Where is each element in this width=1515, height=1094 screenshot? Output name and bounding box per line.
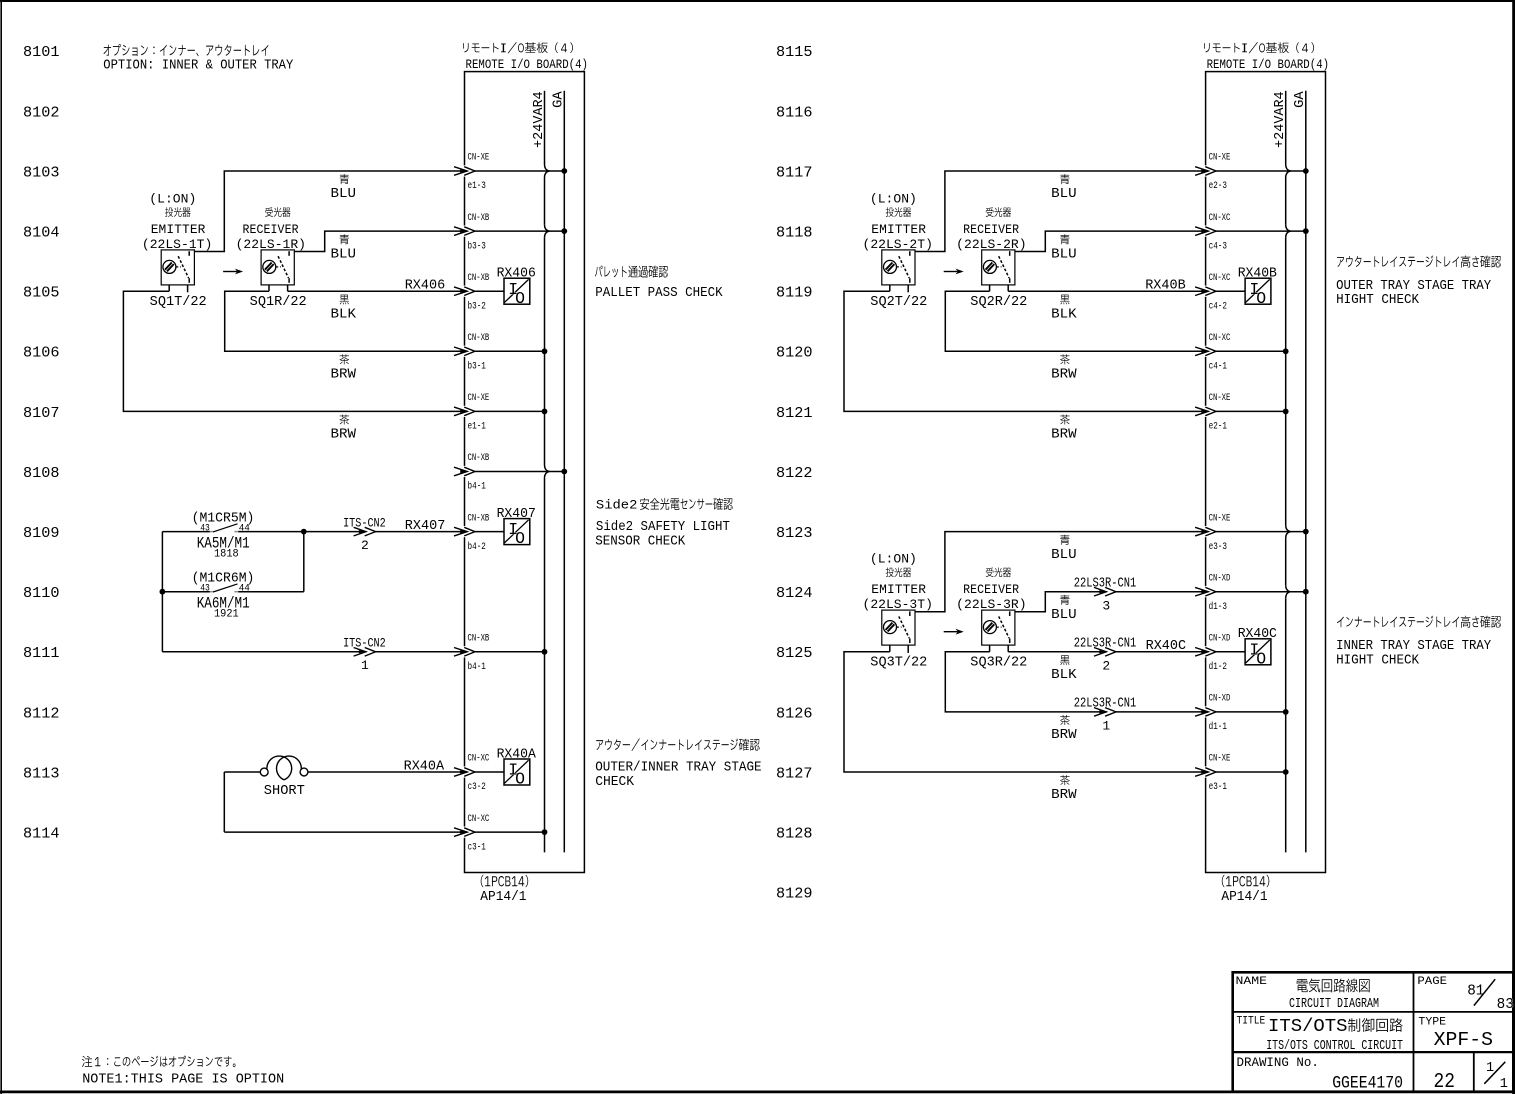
svg-text:HIGHT CHECK: HIGHT CHECK: [1336, 292, 1420, 308]
svg-text:d1-3: d1-3: [1209, 601, 1227, 613]
relay contact KA6M/M1 pins 43-44: [162, 572, 303, 621]
I/O indicator RX40C: [1238, 626, 1277, 668]
svg-text:RX406: RX406: [497, 266, 536, 282]
svg-text:1: 1: [1102, 719, 1110, 734]
wire color label BLU: [331, 174, 357, 202]
svg-text:CN-XE: CN-XE: [1209, 512, 1231, 524]
svg-text:ITS/OTS: ITS/OTS: [1268, 1016, 1348, 1037]
wire node ITS-CN2 rail: [161, 532, 163, 652]
svg-text:1: 1: [1486, 1061, 1494, 1076]
photoelectric sensor emitter SQ1T/22 (22LS-1T): [142, 192, 212, 311]
annotation pallet pass check: [595, 265, 723, 301]
open stub: [907, 285, 909, 292]
wire color label BRW: [1051, 354, 1077, 382]
svg-text:AP14/1: AP14/1: [480, 889, 526, 905]
wire BLU emitter to e1-3: [194, 171, 467, 252]
svg-text:81: 81: [1467, 984, 1484, 1000]
svg-text:8115: 8115: [776, 44, 813, 61]
connector 22LS3R-CN1 pin 2: [1074, 637, 1137, 674]
open stub: [187, 285, 189, 292]
svg-text:AP14/1: AP14/1: [1221, 889, 1267, 905]
svg-text:22LS3R-CN1: 22LS3R-CN1: [1074, 697, 1137, 712]
svg-text:22LS3R-CN1: 22LS3R-CN1: [1074, 637, 1137, 652]
svg-text:CN-XB: CN-XB: [468, 212, 490, 224]
svg-text:RX40A: RX40A: [497, 746, 537, 762]
svg-text:SHORT: SHORT: [264, 784, 305, 799]
svg-text:1818: 1818: [214, 548, 239, 560]
svg-text:NAME: NAME: [1236, 976, 1268, 988]
svg-text:BLK: BLK: [1051, 668, 1077, 683]
svg-text:BLU: BLU: [1051, 548, 1077, 563]
power rail +24VAR4: [532, 91, 549, 853]
svg-text:8128: 8128: [776, 826, 813, 843]
svg-text:(22LS-2R): (22LS-2R): [956, 237, 1026, 252]
svg-text:1: 1: [1500, 1077, 1508, 1092]
wire color label BLU: [1051, 595, 1077, 623]
svg-text:EMITTER: EMITTER: [151, 222, 206, 237]
svg-text:O: O: [1256, 649, 1266, 668]
wire BLU emitter to e3-3: [915, 532, 1208, 612]
svg-text:SQ2R/22: SQ2R/22: [970, 295, 1027, 310]
svg-text:RX407: RX407: [497, 506, 536, 522]
svg-text:c4-1: c4-1: [1209, 361, 1227, 373]
svg-text:(22LS-3T): (22LS-3T): [863, 597, 933, 612]
svg-text:PALLET PASS CHECK: PALLET PASS CHECK: [595, 285, 723, 301]
svg-text:b4-2: b4-2: [468, 541, 486, 553]
I/O indicator RX40A: [497, 746, 537, 788]
svg-text:+24VAR4: +24VAR4: [1273, 91, 1288, 148]
svg-text:8112: 8112: [23, 705, 60, 722]
svg-text:BRW: BRW: [331, 368, 357, 383]
wire color label BRW: [1051, 715, 1077, 743]
annotation outer/inner tray stage check: [595, 739, 761, 791]
board pin CN-XD d1-2: [1195, 633, 1245, 674]
connector 22LS3R-CN1 pin 3: [1074, 576, 1137, 613]
svg-text:1921: 1921: [214, 609, 239, 621]
svg-text:c4-3: c4-3: [1209, 240, 1227, 252]
svg-text:EMITTER: EMITTER: [871, 582, 926, 597]
svg-text:BLU: BLU: [1051, 608, 1077, 623]
svg-text:(22LS-1T): (22LS-1T): [142, 237, 212, 252]
svg-text:GA: GA: [1293, 90, 1308, 107]
svg-text:(22LS-3R): (22LS-3R): [956, 597, 1026, 612]
svg-text:BRW: BRW: [1051, 728, 1077, 743]
svg-text:O: O: [515, 770, 525, 789]
light beam arrow: [944, 269, 964, 275]
svg-text:b3-3: b3-3: [468, 240, 486, 252]
board pin CN-XC c4-3: [1195, 212, 1309, 253]
remote I/O board AP14/1 (left): [463, 42, 588, 905]
svg-text:b4-1: b4-1: [468, 481, 486, 493]
wire BLU receiver: [1015, 231, 1208, 251]
svg-text:CN-XC: CN-XC: [1209, 212, 1231, 224]
svg-text:GA: GA: [552, 90, 567, 107]
remote I/O board AP14/1 (right): [1204, 42, 1329, 905]
svg-text:RECEIVER: RECEIVER: [963, 222, 1019, 237]
short plug SHORT: [224, 756, 467, 799]
svg-text:CN-XC: CN-XC: [468, 813, 490, 825]
wire BRW emitter supply: [844, 285, 1208, 412]
svg-text:8110: 8110: [23, 585, 60, 602]
svg-text:CN-XE: CN-XE: [1209, 152, 1231, 164]
svg-text:22LS3R-CN1: 22LS3R-CN1: [1074, 576, 1137, 591]
svg-text:EMITTER: EMITTER: [871, 222, 926, 237]
svg-text:8125: 8125: [776, 645, 813, 662]
board pin CN-XC c3-1: [454, 813, 547, 854]
svg-text:NOTE1:THIS PAGE IS OPTION: NOTE1:THIS PAGE IS OPTION: [82, 1071, 284, 1087]
svg-text:8106: 8106: [23, 345, 60, 362]
wire BRW receiver supply: [225, 285, 468, 351]
svg-text:b4-1: b4-1: [468, 661, 486, 673]
svg-text:CN-XC: CN-XC: [1209, 272, 1231, 284]
svg-text:TITLE: TITLE: [1237, 1015, 1266, 1027]
board pin CN-XC c4-2: [1195, 272, 1245, 313]
wire color label BLK: [1051, 655, 1077, 683]
svg-text:CN-XE: CN-XE: [468, 392, 490, 404]
board pin CN-XC c3-2: [454, 753, 504, 794]
board pin CN-XB b4-1: [454, 633, 547, 674]
svg-text:+24VAR4: +24VAR4: [532, 91, 547, 148]
svg-text:83: 83: [1497, 997, 1514, 1013]
svg-text:8113: 8113: [23, 765, 60, 782]
svg-text:8102: 8102: [23, 104, 60, 121]
board pin CN-XB b4-1: [454, 452, 567, 493]
svg-text:CN-XC: CN-XC: [1209, 332, 1231, 344]
open stub: [907, 645, 909, 653]
svg-text:RX40C: RX40C: [1146, 639, 1187, 654]
photoelectric sensor receiver SQ2R/22 (22LS-2R): [956, 207, 1027, 310]
wire BRW emitter supply: [844, 645, 1208, 772]
svg-text:2: 2: [1102, 659, 1110, 674]
photoelectric sensor receiver SQ1R/22 (22LS-1R): [236, 207, 307, 310]
board pin CN-XD d1-1: [1195, 693, 1289, 734]
svg-text:8116: 8116: [776, 104, 813, 121]
wire BLU emitter to e2-3: [915, 171, 1208, 252]
svg-text:(L:ON): (L:ON): [149, 192, 196, 207]
svg-text:CN-XE: CN-XE: [468, 152, 490, 164]
wire BLK receiver signal: [1008, 285, 1208, 291]
svg-text:BRW: BRW: [1051, 368, 1077, 383]
svg-text:e3-1: e3-1: [1209, 781, 1227, 793]
svg-text:RX40C: RX40C: [1238, 626, 1277, 642]
wire BRW emitter supply: [123, 285, 467, 412]
svg-text:RECEIVER: RECEIVER: [243, 222, 299, 237]
svg-text:8104: 8104: [23, 225, 60, 242]
wire short return: [224, 772, 467, 832]
svg-text:1: 1: [361, 658, 369, 673]
svg-text:BRW: BRW: [1051, 788, 1077, 803]
svg-text:REMOTE I/O BOARD(4): REMOTE I/O BOARD(4): [466, 57, 589, 72]
svg-text:CIRCUIT DIAGRAM: CIRCUIT DIAGRAM: [1289, 997, 1379, 1012]
svg-text:CN-XD: CN-XD: [1209, 572, 1231, 584]
wire color label BLK: [1051, 295, 1077, 323]
board pin CN-XB b3-2: [454, 272, 504, 313]
svg-text:44: 44: [239, 583, 250, 595]
svg-text:REMOTE I/O BOARD(4): REMOTE I/O BOARD(4): [1207, 57, 1330, 72]
svg-text:SQ3T/22: SQ3T/22: [870, 655, 927, 670]
photoelectric sensor emitter SQ2T/22 (22LS-2T): [863, 192, 933, 311]
svg-text:SENSOR CHECK: SENSOR CHECK: [595, 534, 686, 550]
svg-text:CN-XB: CN-XB: [468, 512, 490, 524]
svg-text:8109: 8109: [23, 525, 60, 542]
svg-text:Side2: Side2: [596, 498, 638, 513]
svg-text:BRW: BRW: [1051, 428, 1077, 443]
svg-text:O: O: [1256, 289, 1266, 308]
svg-text:8101: 8101: [23, 44, 60, 61]
svg-text:GGEE4170: GGEE4170: [1332, 1075, 1403, 1094]
svg-text:b3-2: b3-2: [468, 300, 486, 312]
wire BRW receiver supply: [945, 285, 1208, 351]
svg-text:2: 2: [361, 538, 369, 553]
wire color label BLU: [1051, 174, 1077, 202]
svg-text:22: 22: [1434, 1070, 1456, 1094]
signal label RX40B: [1145, 279, 1186, 294]
light beam arrow: [223, 269, 243, 275]
svg-text:(22LS-2T): (22LS-2T): [863, 237, 933, 252]
svg-text:d1-1: d1-1: [1209, 721, 1227, 733]
wire ITS-CN2 pin1: [162, 651, 467, 653]
svg-text:DRAWING No.: DRAWING No.: [1237, 1056, 1319, 1070]
svg-text:43: 43: [200, 583, 210, 595]
svg-text:8118: 8118: [776, 225, 813, 242]
svg-text:8123: 8123: [776, 525, 813, 542]
svg-text:e2-3: e2-3: [1209, 180, 1227, 192]
svg-text:BLU: BLU: [331, 247, 357, 262]
svg-text:8105: 8105: [23, 285, 60, 302]
board pin CN-XE e3-1: [1195, 753, 1289, 794]
svg-text:ITS/OTS CONTROL CIRCUIT: ITS/OTS CONTROL CIRCUIT: [1266, 1038, 1403, 1054]
annotation inner tray stage tray hight check: [1336, 616, 1501, 669]
svg-text:SQ1T/22: SQ1T/22: [150, 295, 207, 310]
svg-text:8103: 8103: [23, 164, 60, 181]
connector 22LS3R-CN1 pin 1: [1074, 697, 1137, 734]
svg-text:8120: 8120: [776, 345, 813, 362]
svg-text:BLK: BLK: [1051, 307, 1077, 322]
svg-text:44: 44: [239, 523, 250, 535]
svg-text:HIGHT CHECK: HIGHT CHECK: [1336, 652, 1420, 668]
wire color label BLK: [331, 295, 357, 323]
svg-text:8107: 8107: [23, 405, 60, 422]
svg-text:BLU: BLU: [1051, 247, 1077, 262]
svg-text:XPF-S: XPF-S: [1434, 1029, 1493, 1051]
board pin CN-XB b4-2: [454, 512, 504, 553]
board pin CN-XE e2-1: [1195, 392, 1289, 433]
svg-text:8119: 8119: [776, 285, 813, 302]
svg-text:3: 3: [1102, 598, 1110, 613]
svg-text:8127: 8127: [776, 765, 813, 782]
svg-text:c3-1: c3-1: [468, 841, 486, 853]
wire color label BLU: [1051, 535, 1077, 563]
board pin CN-XC c4-1: [1195, 332, 1289, 373]
svg-text:CN-XE: CN-XE: [1209, 392, 1231, 404]
photoelectric sensor emitter SQ3T/22 (22LS-3T): [863, 552, 933, 671]
board pin CN-XB b3-1: [454, 332, 547, 373]
power rail GA: [552, 90, 567, 852]
svg-text:ITS-CN2: ITS-CN2: [343, 515, 386, 530]
svg-text:8124: 8124: [776, 585, 813, 602]
wire BLK receiver signal: [288, 285, 468, 291]
board pin CN-XE e2-3: [1195, 152, 1309, 193]
svg-text:RX40B: RX40B: [1238, 266, 1277, 282]
svg-text:BLU: BLU: [1051, 187, 1077, 202]
svg-text:CHECK: CHECK: [595, 774, 634, 790]
svg-text:SQ1R/22: SQ1R/22: [250, 295, 307, 310]
connector ITS-CN2 pin 1: [343, 636, 386, 674]
wire color label BRW: [1051, 415, 1077, 443]
svg-text:8129: 8129: [776, 886, 813, 903]
svg-text:PAGE: PAGE: [1417, 976, 1447, 988]
svg-text:SQ3R/22: SQ3R/22: [970, 655, 1027, 670]
svg-text:ITS-CN2: ITS-CN2: [343, 636, 386, 651]
svg-text:O: O: [515, 529, 525, 548]
svg-text:c4-2: c4-2: [1209, 300, 1227, 312]
svg-text:8117: 8117: [776, 164, 813, 181]
svg-text:(L:ON): (L:ON): [870, 192, 917, 207]
wire color label BLU: [1051, 234, 1077, 262]
svg-text:(L:ON): (L:ON): [870, 552, 917, 567]
signal label RX407: [405, 519, 446, 534]
svg-text:OPTION: INNER & OUTER TRAY: OPTION: INNER & OUTER TRAY: [103, 58, 294, 74]
line numbers 8101-8114: [23, 44, 60, 842]
svg-text:e1-3: e1-3: [468, 180, 486, 192]
board pin CN-XE e1-1: [454, 392, 547, 433]
annotation outer tray stage tray hight check: [1336, 255, 1501, 308]
svg-text:e3-3: e3-3: [1209, 541, 1227, 553]
board pin CN-XB b3-3: [454, 212, 567, 253]
svg-text:(22LS-1R): (22LS-1R): [236, 237, 306, 252]
svg-text:RX406: RX406: [405, 279, 446, 294]
svg-text:e2-1: e2-1: [1209, 421, 1227, 433]
svg-text:CN-XC: CN-XC: [468, 753, 490, 765]
svg-text:BLU: BLU: [331, 187, 357, 202]
svg-text:BLK: BLK: [331, 307, 357, 322]
board pin CN-XD d1-3: [1195, 572, 1309, 613]
svg-text:RECEIVER: RECEIVER: [963, 582, 1019, 597]
svg-text:8111: 8111: [23, 645, 60, 662]
signal label RX40A: [404, 759, 445, 774]
svg-text:e1-1: e1-1: [468, 421, 486, 433]
svg-text:8122: 8122: [776, 465, 813, 482]
svg-text:b3-1: b3-1: [468, 361, 486, 373]
svg-text:8114: 8114: [23, 826, 60, 843]
note 1: this page is option: [82, 1056, 284, 1088]
board pin CN-XE e1-3: [454, 152, 567, 193]
svg-text:8108: 8108: [23, 465, 60, 482]
svg-text:43: 43: [200, 523, 210, 535]
junction KA5M/KA6M: [160, 529, 307, 595]
svg-text:CN-XB: CN-XB: [468, 332, 490, 344]
signal label RX406: [405, 279, 446, 294]
light beam arrow: [944, 629, 964, 635]
svg-text:SQ2T/22: SQ2T/22: [870, 295, 927, 310]
svg-text:8126: 8126: [776, 705, 813, 722]
svg-text:CN-XB: CN-XB: [468, 633, 490, 645]
svg-text:d1-2: d1-2: [1209, 661, 1227, 673]
svg-text:c3-2: c3-2: [468, 781, 486, 793]
svg-text:CN-XB: CN-XB: [468, 452, 490, 464]
title block: [1233, 972, 1514, 1094]
annotation side2 safety light sensor check: [595, 498, 733, 550]
svg-text:CN-XD: CN-XD: [1209, 633, 1231, 645]
wire color label BLU: [331, 234, 357, 262]
svg-text:8121: 8121: [776, 405, 813, 422]
I/O indicator RX40B: [1238, 266, 1277, 308]
svg-text:BRW: BRW: [331, 428, 357, 443]
wire BLU receiver pin3: [1015, 592, 1208, 612]
svg-text:CN-XD: CN-XD: [1209, 693, 1231, 705]
wire BLK receiver pin2: [1008, 645, 1208, 652]
svg-text:CN-XE: CN-XE: [1209, 753, 1231, 765]
wire color label BRW: [1051, 775, 1077, 803]
wire color label BRW: [331, 415, 357, 443]
wire color label BRW: [331, 354, 357, 382]
svg-text:RX407: RX407: [405, 519, 446, 534]
photoelectric sensor receiver SQ3R/22 (22LS-3R): [956, 567, 1027, 670]
I/O indicator RX407: [497, 506, 536, 548]
I/O indicator RX406: [497, 266, 536, 308]
signal label RX40C: [1146, 639, 1187, 654]
wire BLU receiver: [294, 231, 467, 251]
line numbers 8115-8129: [776, 44, 813, 902]
svg-text:O: O: [515, 289, 525, 308]
svg-text:RX40B: RX40B: [1145, 279, 1186, 294]
power rail GA: [1293, 90, 1308, 852]
svg-text:TYPE: TYPE: [1418, 1016, 1446, 1028]
note: option inner & outer tray: [103, 44, 294, 74]
power rail +24VAR4: [1273, 91, 1290, 853]
wire BRW receiver pin1: [945, 645, 1208, 712]
svg-text:CN-XB: CN-XB: [468, 272, 490, 284]
connector ITS-CN2 pin 2: [343, 515, 386, 553]
relay contact KA5M/M1 pins 43-44: [162, 512, 467, 561]
board pin CN-XE e3-3: [1195, 512, 1309, 553]
